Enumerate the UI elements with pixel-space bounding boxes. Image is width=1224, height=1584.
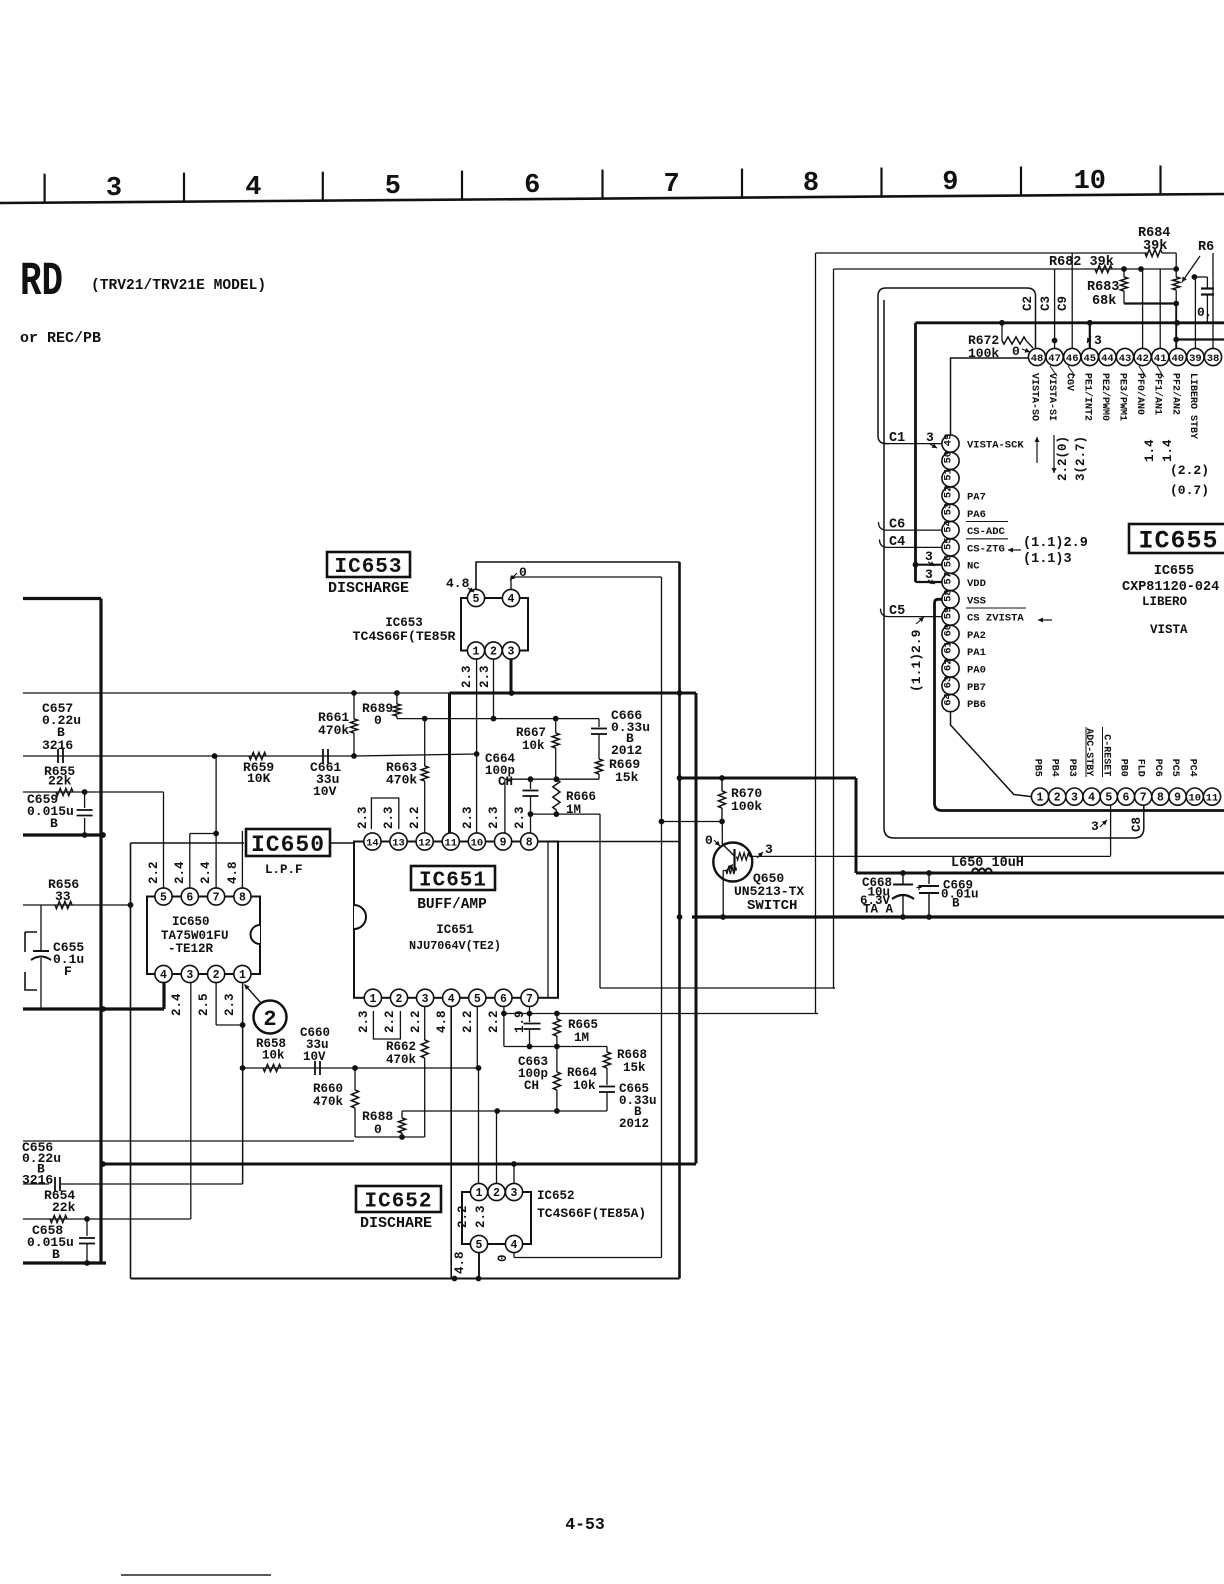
svg-text:3216: 3216 [42,738,73,753]
resistor R683 [1123,269,1125,277]
svg-text:F: F [64,964,72,979]
svg-text:NC: NC [967,561,980,573]
Q650 emitter wire [722,871,724,918]
svg-text:R660: R660 [313,1082,343,1096]
wire y=1013.5 pin7 net [504,1013,818,1015]
capacitor C665 [599,1086,615,1088]
thick corner x=856 down [855,778,858,873]
svg-text:PF1/AN1: PF1/AN1 [1152,373,1164,415]
resistor R689 [396,693,398,704]
capacitor C669 [928,873,930,884]
svg-text:R6: R6 [1198,240,1214,255]
svg-text:IC652: IC652 [364,1191,432,1214]
svg-text:2: 2 [213,969,220,982]
svg-text:22k: 22k [52,1200,76,1215]
resistor R667 [555,719,557,733]
svg-text:R683: R683 [1087,280,1119,295]
page ruler line [0,194,1224,203]
svg-text:PC4: PC4 [1186,759,1197,777]
svg-text:(1.1)3: (1.1)3 [1023,552,1072,567]
footer blue line [121,1574,271,1576]
svg-text:VISTA-SO: VISTA-SO [1029,373,1040,421]
svg-text:PA0: PA0 [967,665,986,677]
svg-text:100k: 100k [731,799,762,814]
svg-text:C9: C9 [1056,296,1070,311]
svg-text:0,: 0, [1197,305,1213,320]
svg-text:3: 3 [106,174,122,204]
capacitor C661 [322,749,324,763]
svg-text:59: 59 [943,607,955,620]
Q650 emitter arrow [726,865,734,872]
overlines CS-ADC CS-ZTG CS ZVISTA [966,521,1008,523]
IC653 body [461,598,528,651]
wire y=1068 R658 net [243,1067,479,1069]
svg-text:33: 33 [55,889,71,904]
resistor R655 [56,788,73,795]
svg-text:TA A: TA A [863,903,894,917]
svg-text:9: 9 [1174,792,1181,805]
svg-text:2: 2 [1054,792,1061,805]
svg-text:64: 64 [943,693,955,706]
resistor R656 [55,901,72,908]
svg-text:4: 4 [245,173,261,203]
capacitor C658 [86,1219,88,1236]
body corner top-left [951,358,1029,435]
svg-text:14: 14 [366,837,379,849]
svg-text:8: 8 [526,837,533,850]
svg-text:55: 55 [943,537,955,550]
svg-text:7: 7 [1140,792,1147,805]
svg-text:6: 6 [1123,792,1130,805]
svg-text:2.3: 2.3 [356,806,370,829]
svg-text:52: 52 [943,485,955,498]
svg-text:2.3: 2.3 [478,665,492,688]
capacitor C659 [84,792,86,808]
svg-text:41: 41 [1154,353,1167,365]
svg-text:53: 53 [943,503,955,516]
svg-text:C6: C6 [889,518,905,533]
svg-text:10k: 10k [262,1049,285,1063]
svg-text:3: 3 [1091,819,1099,834]
resistor R660 [354,1068,356,1090]
node R654/C658 [84,1216,90,1222]
svg-text:2: 2 [490,646,497,659]
wire y=756 C657 net [23,755,354,757]
IC655 bottom pin row [1031,788,1048,805]
svg-text:15k: 15k [623,1061,646,1075]
wire R656 y=905 [23,904,131,906]
wire jog to edge cap [1194,276,1207,278]
svg-text:0: 0 [496,1254,510,1262]
svg-text:ADC-STBY: ADC-STBY [1083,728,1094,776]
circled 2 marker [254,1001,287,1034]
svg-text:2.3: 2.3 [382,806,396,829]
IC652 pin5 riser [478,1253,480,1279]
svg-text:3: 3 [422,993,429,1006]
node junction R655/C659 [82,789,88,795]
svg-text:38: 38 [1207,353,1220,365]
svg-text:3: 3 [926,430,934,445]
capacitor C655 with shield box [40,905,42,948]
IC653 pin3 thick riser [510,659,513,693]
IC655 top pin row [1028,348,1045,365]
wire y=1137 [355,1136,425,1138]
svg-text:(TRV21/TRV21E MODEL): (TRV21/TRV21E MODEL) [91,278,266,294]
big enclosure wire left/bottom [130,843,132,1279]
svg-text:0: 0 [519,565,527,580]
wire y=1111 [402,1110,607,1112]
svg-text:2: 2 [493,1187,500,1200]
svg-text:3: 3 [511,1187,518,1200]
resistor R672 [1001,323,1003,341]
IC653 designator [327,552,410,577]
IC652 pins top [470,1183,487,1200]
capacitor C663 [529,1014,531,1023]
svg-text:RD: RD [20,256,63,309]
svg-text:2.2: 2.2 [408,806,422,829]
wire C9 riser [1071,253,1073,348]
svg-text:4.8: 4.8 [446,576,470,591]
thick VDD horizontal y=322.8 [916,321,1224,324]
svg-text:68k: 68k [1092,294,1116,309]
wire thick top-left L [23,597,101,600]
svg-text:UN5213-TX: UN5213-TX [734,884,804,899]
4.8 net right vertical [678,562,681,1279]
resistor R663 [424,719,426,766]
arrow CS ZVISTA [1038,619,1052,621]
0 net vertical [661,577,663,1258]
svg-text:2012: 2012 [619,1117,649,1131]
svg-text:PC6: PC6 [1152,759,1163,777]
thick ground rail y=917 [692,915,1224,918]
svg-text:2.3: 2.3 [487,806,501,829]
svg-text:9: 9 [500,837,507,850]
svg-text:8: 8 [239,892,246,905]
svg-text:CH: CH [524,1079,539,1093]
wire 0 net from pin4 [511,577,662,590]
svg-text:IC655: IC655 [1138,527,1218,556]
svg-text:44: 44 [1101,353,1114,365]
wire y=1184 C656 net [23,1183,49,1185]
wire thick y=1009 to IC650 pin4 [23,1007,164,1010]
svg-text:10k: 10k [573,1079,596,1093]
wrap wire 2 x=834 [834,269,836,988]
svg-text:13: 13 [392,837,405,849]
svg-text:46: 46 [1066,353,1079,365]
svg-text:5: 5 [473,593,480,606]
svg-text:470k: 470k [386,773,417,788]
wrap wire 1 x=816 [816,253,819,1014]
svg-text:C3: C3 [1039,296,1053,311]
wrap wire 1 top edge y=253 [816,252,1149,254]
R685 partial resistor [1162,252,1176,254]
pin6 stub [503,1006,505,1014]
svg-text:15k: 15k [615,770,639,785]
svg-text:PB7: PB7 [967,682,986,694]
svg-text:FLD: FLD [1135,759,1146,777]
IC650 notch [251,925,261,944]
node on box edge [128,902,134,908]
svg-text:VISTA: VISTA [1150,623,1188,637]
wire thin y=693 from left [23,692,450,694]
svg-text:PF2/AN2: PF2/AN2 [1169,373,1181,415]
svg-text:NJU7064V(TE2): NJU7064V(TE2) [409,939,501,953]
wire thick y=1263 [23,1261,106,1264]
pin4 4.8 riser [450,1006,452,1279]
pin41 riser [1159,269,1161,348]
svg-text:6: 6 [500,993,507,1006]
IC653 pin2 riser [493,659,495,719]
wire x=600 down to y=988 [599,814,601,988]
svg-text:IC652: IC652 [537,1189,575,1203]
svg-text:1: 1 [473,646,480,659]
pin7 stub [529,1006,531,1014]
wire pin7 riser [215,756,217,888]
svg-text:10V: 10V [303,1050,326,1064]
wire C3 riser [1054,269,1056,348]
stub VDD pin57 [916,581,942,583]
svg-text:4: 4 [511,1239,518,1252]
arrow to pin1 [245,985,262,1004]
svg-text:C8: C8 [1130,817,1144,832]
svg-text:5: 5 [474,993,481,1006]
wire y=821.5 base net [662,821,723,823]
svg-text:4.8: 4.8 [453,1251,467,1274]
IC655 designator [1129,524,1224,553]
bracket pins 14-13 [371,798,398,829]
IC652 designator [356,1186,441,1212]
svg-text:C5: C5 [889,604,905,619]
IC650 designator [246,829,330,856]
capacitor C657 [57,749,59,763]
wire pin5 riser [163,792,165,888]
VDD thick net [914,323,917,582]
ADC-STBY / C-RESET overlines [1085,727,1087,777]
svg-text:2.2(0): 2.2(0) [1056,436,1070,481]
resistor R659 [249,752,266,759]
svg-text:R682 39k: R682 39k [1049,255,1114,270]
wire y=814 pin8 net [531,813,601,815]
IC651 pins top 14-8 [364,833,381,850]
svg-text:2.2: 2.2 [487,1010,501,1033]
Q650 internal base bar [733,849,735,871]
svg-text:47: 47 [1048,353,1061,365]
Q650 internal collector resistor [737,853,750,860]
svg-text:C-RESET: C-RESET [1100,734,1111,776]
svg-text:R665: R665 [568,1018,598,1032]
pin5/IC652 pin1 riser [476,1006,478,1068]
svg-text:B: B [50,816,58,831]
wire pin45 riser [1089,323,1091,349]
svg-text:PE2/PWM0: PE2/PWM0 [1099,373,1111,421]
ruler ticks [43,174,45,204]
svg-text:1: 1 [476,1187,483,1200]
svg-text:VSS: VSS [967,595,986,607]
C6 wire [879,522,942,530]
svg-text:PB3: PB3 [1066,759,1077,777]
C4 wire [880,539,942,547]
wrap wire C1 rounded [878,288,1036,444]
0 net bottom to IC652 pin4 [514,1257,662,1259]
svg-text:BUFF/AMP: BUFF/AMP [417,897,487,913]
node IC653 pin3 [509,690,515,696]
svg-text:PA2: PA2 [967,630,986,642]
svg-text:1: 1 [369,993,376,1006]
svg-text:2: 2 [263,1007,276,1032]
svg-text:2.3: 2.3 [223,993,237,1016]
pin11 riser thick [448,693,451,833]
svg-text:8: 8 [803,169,819,199]
capacitor at page edge [1201,287,1214,289]
svg-text:1.4: 1.4 [1143,439,1157,462]
svg-text:2.2: 2.2 [383,1010,397,1033]
svg-text:IC650: IC650 [251,832,325,858]
svg-text:2.2: 2.2 [461,1010,475,1033]
svg-text:3: 3 [508,646,515,659]
svg-text:10K: 10K [247,771,271,786]
svg-text:5: 5 [1105,792,1112,805]
pin8 top riser [530,814,532,833]
svg-text:C4: C4 [889,535,905,550]
svg-text:1.4: 1.4 [1161,439,1175,462]
svg-text:R664: R664 [567,1066,598,1080]
svg-text:L.P.F: L.P.F [265,863,303,877]
IC650 body [147,897,260,975]
svg-text:2012: 2012 [611,743,642,758]
C1 wire horizontal [889,443,942,445]
thick wire y=1164 [103,1163,696,1166]
svg-text:0: 0 [1012,344,1020,359]
svg-text:PB4: PB4 [1049,759,1060,777]
svg-text:58: 58 [943,589,955,602]
svg-text:TC4S66F(TE85A): TC4S66F(TE85A) [537,1206,646,1221]
svg-text:2.4: 2.4 [173,861,187,884]
IC651 notch [354,905,366,929]
wire y=779.2 pin9 net [505,778,599,780]
svg-text:1: 1 [1037,792,1044,805]
svg-text:43: 43 [1119,353,1132,365]
svg-text:40: 40 [1171,353,1184,365]
IC650 pin1 chain [242,982,244,1184]
svg-text:57: 57 [943,572,955,585]
svg-text:62: 62 [943,658,955,671]
collector wire y=855.7 to IC655 pin5 [750,855,1111,857]
svg-text:-TE12R: -TE12R [168,942,214,956]
IC650 pins top 5-8 [155,888,172,905]
IC650 pins bottom 4-1 [155,965,172,982]
svg-text:CGV: CGV [1064,373,1075,391]
chamfer pin64 to bottom row [951,712,1032,797]
Q650 internal base diagonal [722,844,734,856]
svg-text:C2: C2 [1021,296,1035,311]
svg-text:39k: 39k [1143,239,1167,254]
svg-text:IC653: IC653 [385,616,423,630]
wire pin6 riser [189,834,191,889]
svg-text:2.2: 2.2 [409,1010,423,1033]
svg-text:2.3: 2.3 [461,806,475,829]
wire y=792 R655 net [23,791,164,793]
wrap wire 2 top edge y=269 [834,268,1178,270]
svg-text:50: 50 [943,451,955,464]
svg-text:11: 11 [1206,792,1219,804]
svg-text:2.3: 2.3 [460,665,474,688]
svg-text:0: 0 [374,1122,382,1137]
svg-text:(0.7): (0.7) [1170,483,1209,498]
svg-text:2.2: 2.2 [147,861,161,884]
svg-text:PA7: PA7 [967,492,986,504]
svg-text:IC650: IC650 [172,915,210,929]
C5 wire [881,609,942,617]
IC651 designator [411,866,495,890]
resistor R668 [606,1047,608,1053]
svg-text:2.5: 2.5 [197,993,211,1016]
svg-text:B: B [952,897,960,911]
IC655 left pin column [942,435,959,452]
svg-text:470k: 470k [318,723,349,738]
svg-text:4.8: 4.8 [226,861,240,884]
svg-text:PF0/AN0: PF0/AN0 [1134,373,1146,415]
pin9 riser [504,779,506,833]
IC651 pins bottom 1-7 [364,989,381,1006]
svg-text:4: 4 [160,969,167,982]
wire thick y=835 [23,833,103,836]
thick wire y=778 [680,777,857,780]
resistor R664 [553,1072,560,1090]
svg-text:R668: R668 [617,1048,647,1062]
svg-text:PB5: PB5 [1032,759,1043,777]
IC652 body [462,1192,531,1244]
svg-text:51: 51 [943,468,955,481]
pin8 wrap to pin7 wire [538,842,548,998]
capacitor C666 [598,719,600,727]
svg-text:3(2.7): 3(2.7) [1074,436,1088,481]
capacitor C660 [314,1061,316,1075]
svg-text:IC655: IC655 [1154,564,1195,579]
svg-text:45: 45 [1083,353,1096,365]
node pin7 riser jog [213,831,219,837]
stub NC pin56 [916,564,942,566]
svg-text:VISTA-SI: VISTA-SI [1046,373,1057,421]
wire y=833.5 [190,833,216,835]
svg-text:LIBERO STBY: LIBERO STBY [1187,373,1198,439]
resistor R661 [353,693,355,719]
svg-text:4: 4 [448,993,455,1006]
svg-text:54: 54 [943,520,955,533]
wire y=718.6 [397,718,599,720]
svg-text:10V: 10V [313,784,337,799]
svg-text:4.8: 4.8 [435,1010,449,1033]
svg-text:2.4: 2.4 [170,993,184,1016]
svg-text:22k: 22k [48,774,72,789]
svg-text:100k: 100k [968,346,999,361]
svg-text:R662: R662 [386,1040,416,1054]
wrap wire C8 [884,300,1144,838]
pin42 riser [1142,269,1144,348]
svg-text:(1.1)2.9: (1.1)2.9 [1023,536,1088,551]
svg-text:IC651: IC651 [419,870,487,893]
pin48 stub [1026,341,1033,349]
svg-text:PE3/PWM1: PE3/PWM1 [1117,373,1129,421]
svg-text:CXP81120-024: CXP81120-024 [1122,580,1219,595]
svg-text:LIBERO: LIBERO [1142,595,1188,609]
svg-text:VDD: VDD [967,578,986,590]
svg-text:SWITCH: SWITCH [747,898,797,914]
svg-text:2.3: 2.3 [357,1010,371,1033]
transistor Q650 [713,843,752,882]
svg-text:R667: R667 [516,726,546,740]
svg-text:3: 3 [1071,792,1078,805]
pin6 riser lower [503,1014,505,1047]
